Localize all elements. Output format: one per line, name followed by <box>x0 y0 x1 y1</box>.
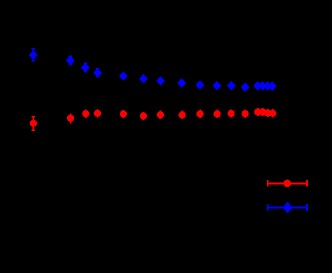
red series: point 13 <box>257 108 259 116</box>
red series: point 7 <box>159 111 161 119</box>
blue series: point 12 <box>242 83 249 91</box>
blue series: point 10 <box>213 82 220 90</box>
blue series: error bar point 1 <box>30 49 37 61</box>
legend entry: blue errorbar sample <box>268 204 307 211</box>
blue series: point 14 <box>259 82 266 90</box>
red series: point 3 <box>85 110 87 118</box>
red series: point 15 <box>267 109 269 117</box>
svg-text:PS: PS <box>246 176 262 190</box>
red series: point 4 <box>97 109 99 117</box>
blue series: error bar point 4 <box>94 69 101 77</box>
blue series: point 16 <box>269 82 276 90</box>
red series: point 11 <box>230 109 232 117</box>
blue series: point 8 <box>178 79 185 87</box>
red series: point 5 <box>122 110 124 118</box>
red series: error bar point 2 <box>70 114 72 124</box>
red series: point 12 <box>244 110 246 118</box>
red series: error bar point 1 <box>31 117 35 131</box>
blue series: point 9 <box>196 81 203 89</box>
red series: point 14 <box>262 108 264 116</box>
red series: point 10 <box>216 110 218 118</box>
red series: point 9 <box>199 110 201 118</box>
blue series: point 5 <box>120 72 127 80</box>
red series: point 6 <box>142 112 144 120</box>
blue series: error bar point 3 <box>82 63 89 72</box>
blue series: point 6 <box>140 75 147 83</box>
blue series: point 13 <box>254 82 261 90</box>
blue series: point 15 <box>264 82 271 90</box>
red series: point 8 <box>181 111 183 119</box>
axis frame (black, invisible on black background) <box>33 19 299 219</box>
red series: point 16 <box>272 109 274 117</box>
blue series: error bar point 2 <box>67 56 74 65</box>
blue series: point 11 <box>228 82 235 90</box>
blue series: point 7 <box>157 77 164 85</box>
legend entry: red errorbar sample <box>268 180 307 187</box>
svg-text:V: V <box>254 200 262 214</box>
